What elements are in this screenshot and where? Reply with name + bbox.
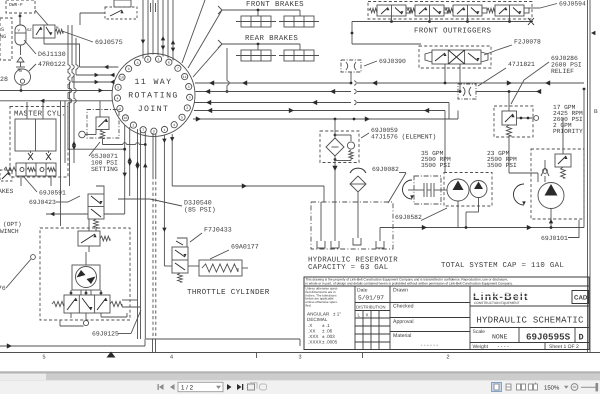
svg-text:4: 4: [116, 96, 118, 101]
svg-text:1: 1: [158, 57, 160, 62]
valve 69J0575 pilot box: [80, 0, 137, 25]
svg-text:3: 3: [299, 355, 302, 361]
winch relief valve: [78, 219, 110, 252]
svg-text:Approval: Approval: [393, 319, 413, 325]
svg-text:9: 9: [128, 67, 130, 72]
rear brake cylinder right: [279, 50, 319, 61]
winch enclosure: [40, 228, 130, 320]
winch directional valve: [52, 290, 122, 326]
svg-text:JOINT: JOINT: [138, 105, 170, 114]
svg-text:CAD: CAD: [574, 295, 588, 302]
wire return line to reservoir: [172, 183, 324, 202]
svg-text:9: 9: [189, 96, 191, 101]
front outriggers dashed enclosure: [368, 2, 532, 20]
svg-text:DECIMAL: DECIMAL: [307, 317, 328, 322]
svg-text:6: 6: [168, 61, 170, 66]
toolbar page layout icons: [492, 383, 538, 392]
wire 65J0071 drain: [68, 143, 147, 151]
svg-text:69J0423: 69J0423: [29, 199, 56, 206]
wire bus line 5: [193, 111, 458, 122]
svg-text:in whole or in part, of design: in whole or in part, of design and detai…: [306, 282, 513, 286]
toolbar next page button: [227, 384, 232, 390]
svg-text:47J1576 (ELEMENT): 47J1576 (ELEMENT): [371, 134, 436, 141]
wire winch to pipes: [101, 300, 141, 317]
svg-text:76: 76: [0, 285, 6, 292]
svg-text:.XXXX: .XXXX: [308, 340, 322, 345]
viewport edge line: [0, 371, 600, 373]
filter 69J0082: [350, 168, 366, 238]
label 69J0082: [372, 166, 406, 203]
svg-text:SETTING: SETTING: [91, 166, 118, 173]
svg-text:Checked: Checked: [393, 304, 414, 310]
svg-text:D3J0540: D3J0540: [184, 200, 212, 207]
toolbar first page button: [158, 384, 164, 390]
svg-text:ANGULAR: ANGULAR: [307, 312, 330, 317]
horizontal scrollbar: [0, 374, 600, 381]
svg-text:5: 5: [117, 86, 119, 91]
alignment triangle: [107, 352, 116, 358]
Link-Belt logo: [473, 291, 532, 305]
title block tolerances: [306, 287, 342, 345]
pump 17 GPM: [514, 183, 565, 228]
svg-text:F2J0078: F2J0078: [514, 39, 541, 46]
title block sign rows: [390, 288, 470, 349]
label 47R0122: [29, 61, 66, 71]
wire outrigger rail: [351, 16, 533, 44]
svg-text:NONE: NONE: [492, 334, 508, 341]
svg-text:Drawn: Drawn: [393, 288, 408, 294]
rear brake cylinder left: [236, 50, 276, 61]
check valve: [541, 160, 549, 182]
svg-text:69A0177: 69A0177: [231, 244, 259, 251]
toolbar page number box: [178, 382, 223, 391]
svg-text:69J0591: 69J0591: [39, 190, 66, 197]
wire suction line: [380, 89, 584, 230]
label 69J0059 element: [361, 127, 436, 141]
wire joint diagonals to brakes: [182, 0, 222, 77]
svg-text:47J1821: 47J1821: [508, 61, 535, 68]
svg-text:THROTTLE CYLINDER: THROTTLE CYLINDER: [187, 288, 270, 297]
svg-text:Weight: Weight: [473, 344, 489, 350]
plugged port X: [528, 18, 534, 25]
svg-text:(85 PSI): (85 PSI): [184, 207, 216, 214]
svg-text:DISTRIBUTION: DISTRIBUTION: [356, 305, 386, 310]
svg-text:5/01/97: 5/01/97: [358, 295, 384, 302]
svg-text:3500 PSI: 3500 PSI: [487, 162, 517, 169]
svg-text:11 WAY: 11 WAY: [135, 78, 173, 87]
svg-text:7: 7: [142, 128, 144, 133]
svg-text:7: 7: [177, 67, 179, 72]
reducing valve 65J0071: [79, 101, 119, 145]
toolbar background: [0, 380, 600, 394]
svg-text:MASTER CYL.: MASTER CYL.: [14, 111, 66, 119]
scale row: [470, 328, 589, 343]
box DWR (cut at top): [6, 0, 35, 25]
svg-text:GZ: GZ: [27, 28, 32, 33]
svg-text:(OPT): (OPT): [3, 221, 22, 228]
label 35 GPM: [421, 150, 451, 169]
wire top-left diagonal: [20, 10, 48, 25]
wire bus line 2: [196, 89, 542, 94]
svg-text:S: S: [1, 27, 4, 33]
front brake cylinder right: [279, 16, 319, 27]
brake valves 69J0591: [4, 163, 56, 186]
svg-text:Material: Material: [393, 333, 411, 339]
svg-text:------: ------: [420, 343, 439, 349]
svg-text:69J0082: 69J0082: [372, 166, 399, 173]
outrigger valve 3: [445, 5, 487, 16]
svg-text:1: 1: [163, 128, 165, 133]
wire top-left bundle: [61, 25, 80, 226]
svg-text:69J0594: 69J0594: [559, 1, 586, 8]
weight row: [473, 343, 579, 351]
label 69J0582: [395, 208, 447, 221]
svg-text:69J0575: 69J0575: [95, 39, 123, 46]
svg-text:FRONT OUTRIGGERS: FRONT OUTRIGGERS: [414, 28, 492, 36]
svg-text:CAPACITY = 63 GAL: CAPACITY = 63 GAL: [308, 264, 389, 272]
label 23 GPM: [487, 150, 517, 169]
pump 35 GPM: [444, 173, 492, 228]
svg-text:69J0125: 69J0125: [92, 331, 119, 338]
label 47J1576 leader (cut): [0, 255, 35, 292]
throttle cylinder: [199, 260, 248, 276]
svg-text:3: 3: [136, 61, 138, 66]
label HYDRAULIC RESERVOIR: [308, 257, 398, 273]
svg-text:AKES: AKES: [0, 188, 14, 195]
toolbar prev page button: [170, 384, 175, 390]
label 69J0591: [24, 177, 66, 197]
svg-text:2: 2: [132, 123, 134, 128]
label D3J0540 85 PSI: [118, 199, 216, 214]
svg-text:WINCH: WINCH: [0, 228, 19, 235]
svg-text:47R0122: 47R0122: [38, 61, 66, 68]
svg-text:CONSTRUCTION EQUIPMENT: CONSTRUCTION EQUIPMENT: [474, 301, 520, 305]
valve 47J1821: [458, 84, 476, 99]
svg-text:2: 2: [186, 106, 188, 111]
svg-text:2: 2: [447, 355, 450, 361]
toolbar snapshot icons: [248, 383, 267, 390]
wire bus line 1: [195, 80, 585, 90]
relief valve 69J0286: [494, 90, 539, 173]
svg-text:TOTAL SYSTEM CAP = 110 GAL: TOTAL SYSTEM CAP = 110 GAL: [441, 262, 564, 270]
master cylinder: [10, 102, 68, 177]
match arrow: [591, 31, 595, 35]
outrigger valve 2: [407, 5, 449, 16]
priority relief valve: [555, 118, 571, 178]
label 69J0286 2600 PSI RELIEF: [511, 55, 582, 104]
svg-text:69J0582: 69J0582: [395, 214, 422, 221]
valve 69J0575: [27, 25, 80, 44]
svg-text:REAR BRAKES: REAR BRAKES: [245, 35, 298, 43]
CAD box: [572, 291, 588, 304]
label 65J0071 setting: [89, 142, 118, 173]
label OPT WINCH: [0, 221, 22, 235]
svg-text:28: 28: [0, 76, 8, 83]
label 69J0390: [364, 58, 406, 66]
label D6J1130: [24, 40, 66, 58]
title block: [304, 277, 589, 350]
title HYDRAULIC SCHEMATIC: [470, 306, 589, 328]
wire joint top bundle: [141, 0, 175, 61]
wire rear brakes feed: [218, 40, 300, 50]
svg-text:NG: NG: [0, 34, 6, 40]
wire bottom left run: [0, 339, 300, 349]
outrigger valve 1: [369, 5, 411, 16]
toolbar zoom slider: [581, 383, 598, 391]
svg-text:3500 PSI: 3500 PSI: [421, 162, 451, 169]
label 69A0177: [210, 244, 259, 260]
svg-text:PRIORITY: PRIORITY: [553, 128, 583, 135]
label 69J0575: [62, 31, 123, 46]
svg-text:D6J1130: D6J1130: [38, 51, 66, 58]
svg-text:Sheet 1 OF 2: Sheet 1 OF 2: [549, 344, 579, 350]
check valve below accumulator: [16, 57, 25, 71]
svg-text:± .003: ± .003: [322, 334, 335, 339]
label 69J0423: [29, 196, 80, 206]
label 69J0101: [541, 220, 579, 242]
svg-text:69J0595S: 69J0595S: [526, 332, 571, 343]
svg-text:± .0005: ± .0005: [322, 340, 338, 345]
wire bus line 4: [194, 108, 445, 173]
valve D3J0540: [88, 186, 104, 231]
svg-text:----: ----: [497, 344, 509, 350]
svg-text:10: 10: [123, 116, 127, 121]
svg-text:.XXX: .XXX: [308, 334, 318, 339]
wire brake crossline: [46, 212, 125, 216]
orifice 69J0390: [341, 60, 361, 84]
front brake cylinder left: [236, 16, 276, 27]
toolbar zoom out: [571, 384, 578, 391]
svg-text:.XX: .XX: [308, 329, 315, 334]
svg-text:± .1: ± .1: [322, 323, 330, 328]
svg-text:FRONT BRAKES: FRONT BRAKES: [246, 1, 304, 9]
svg-text:150%: 150%: [544, 385, 560, 392]
label F2J0078: [484, 39, 541, 56]
svg-text:Date: Date: [357, 288, 368, 294]
svg-text:8: 8: [188, 85, 190, 90]
valve F7J0433: [164, 238, 199, 282]
svg-text:5: 5: [181, 116, 183, 121]
svg-text:1 / 2: 1 / 2: [181, 385, 194, 392]
svg-text:Scale: Scale: [473, 329, 486, 335]
engine coupling box: [403, 176, 448, 204]
svg-text:± .06: ± .06: [322, 329, 333, 334]
wire joint bottom bundle: [123, 125, 175, 339]
svg-text:± 1°: ± 1°: [333, 312, 341, 317]
accumulator D6J1130: [15, 25, 26, 55]
label 47J1821: [478, 61, 535, 86]
pump 28 circle: [0, 69, 31, 91]
svg-text:HYDRAULIC SCHEMATIC: HYDRAULIC SCHEMATIC: [476, 316, 584, 326]
wire bus line 3: [195, 100, 450, 119]
svg-text:ROTATING: ROTATING: [128, 92, 179, 101]
pump assembly 69J0101 enclosure: [531, 149, 584, 219]
label 69J0594: [528, 1, 586, 9]
pump 23 GPM: [466, 181, 487, 228]
valve F2J0078: [352, 44, 491, 93]
brake pedal box (cut): [0, 170, 12, 181]
svg-text:DWR-F: DWR-F: [9, 2, 23, 8]
title block date cell: [355, 288, 390, 350]
toolbar last page button: [237, 384, 243, 390]
rotating joint J1: [112, 54, 195, 137]
svg-text:10: 10: [120, 76, 124, 81]
box steering section (cut): [0, 18, 12, 60]
zone numbers: [43, 353, 450, 361]
wire joint left stubs: [0, 65, 118, 103]
toolbar zoom level: [544, 385, 569, 392]
svg-text:6: 6: [147, 58, 149, 63]
svg-text:11: 11: [183, 75, 187, 80]
svg-text:4: 4: [173, 123, 175, 128]
wire front brakes feed: [218, 6, 300, 16]
label F7J0433: [190, 227, 232, 243]
hydraulic reservoir: [311, 202, 393, 249]
svg-text:fied.: fied.: [306, 304, 312, 308]
svg-text:5: 5: [43, 355, 46, 361]
wire rear brakes drop: [226, 48, 230, 93]
svg-text:69J0101: 69J0101: [541, 235, 568, 242]
filter 69J0059: [320, 119, 359, 202]
svg-text:B: B: [594, 109, 598, 115]
svg-text:X: X: [366, 313, 369, 318]
outrigger valve 4: [487, 5, 529, 16]
label 17 GPM priority: [553, 104, 583, 135]
svg-text:.X: .X: [308, 323, 312, 328]
svg-text:RELIEF: RELIEF: [551, 68, 574, 75]
svg-text:69J0390: 69J0390: [379, 58, 406, 65]
svg-text:F7J0433: F7J0433: [204, 227, 232, 234]
svg-text:4: 4: [170, 355, 173, 361]
label 69J0125: [92, 310, 141, 338]
svg-text:D: D: [579, 333, 584, 343]
winch motor: [72, 252, 100, 295]
